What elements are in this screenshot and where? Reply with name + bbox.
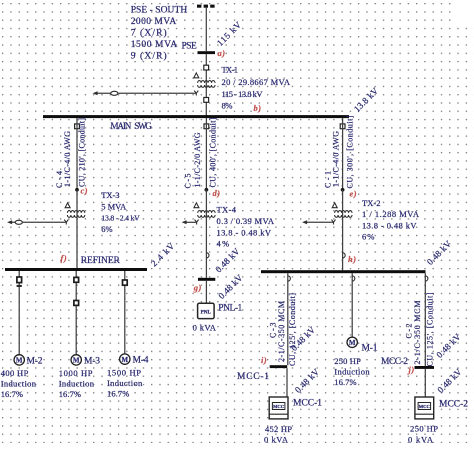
fuse dash M-2	[17, 285, 22, 287]
NGR resistor oval of TX-3	[15, 220, 22, 224]
NGR arrow of TX-2	[302, 220, 307, 224]
wire motor M-4	[124, 271, 126, 354]
svg-text:2-1/C-350 MCM: 2-1/C-350 MCM	[413, 301, 422, 365]
svg-text:16.7%: 16.7%	[334, 377, 356, 387]
MCC-1 box	[269, 397, 288, 419]
fuse arc C-2	[425, 276, 428, 281]
svg-text:MCC-2: MCC-2	[439, 400, 468, 410]
svg-text:MCC-1: MCC-1	[293, 399, 322, 409]
svg-text:Induction: Induction	[1, 378, 37, 388]
svg-text:M: M	[349, 339, 356, 347]
svg-text:TX-2: TX-2	[362, 198, 381, 208]
svg-text:250 HP: 250 HP	[410, 423, 438, 433]
breaker square feeder C-1	[340, 124, 345, 129]
svg-text:7 (X/R): 7 (X/R)	[131, 28, 167, 39]
NGR arrow of TX-3	[7, 220, 12, 224]
cable C-1 labels	[324, 115, 355, 188]
text M-4 ratings	[107, 367, 143, 398]
svg-text:0 kVA: 0 kVA	[264, 435, 289, 445]
svg-text:0.3 / 0.39 MVA: 0.3 / 0.39 MVA	[217, 216, 275, 226]
bus g) PNL feeder bar	[198, 278, 215, 281]
svg-text:M-4: M-4	[133, 356, 149, 366]
text TX-1 ratings	[222, 64, 291, 110]
svg-text:6%: 6%	[101, 224, 112, 234]
wire TX-3 to REFINER	[76, 190, 78, 268]
svg-text:CU, 125', [Conduit]: CU, 125', [Conduit]	[426, 292, 435, 366]
wire cable C-5	[205, 118, 207, 190]
svg-text:13.8 - 0.48 kV: 13.8 - 0.48 kV	[362, 220, 417, 230]
svg-text:1500 MVA: 1500 MVA	[131, 40, 178, 50]
svg-text:TX-4: TX-4	[217, 205, 237, 215]
svg-text:452 HP: 452 HP	[265, 424, 292, 434]
wire TX-2 down to bus h	[342, 190, 344, 270]
text utility ratings	[131, 6, 188, 62]
NGR resistor oval of TX-1	[111, 91, 118, 95]
wire i bar to MCC-1	[286, 368, 288, 397]
NGR wire of TX-2	[305, 221, 334, 223]
svg-text:c): c)	[81, 185, 89, 195]
svg-text:d): d)	[213, 188, 221, 198]
wire cable C-4	[76, 118, 78, 190]
text MCC-1 load	[264, 424, 292, 445]
motor M-4 circle	[120, 354, 130, 364]
NGR wire of TX-4	[184, 221, 196, 223]
svg-text:0 kVA: 0 kVA	[408, 434, 434, 444]
svg-text:M-3: M-3	[84, 356, 100, 366]
svg-text:f): f)	[61, 253, 68, 263]
svg-text:PSE - SOUTH: PSE - SOUTH	[131, 6, 188, 16]
transformer TX-2	[332, 203, 353, 225]
svg-text:13.8 - 0.48 kV: 13.8 - 0.48 kV	[217, 227, 272, 237]
svg-text:9 (X/R): 9 (X/R)	[131, 51, 167, 62]
svg-text:Induction: Induction	[59, 378, 95, 388]
svg-text:h): h)	[348, 254, 357, 264]
svg-text:REFINER: REFINER	[81, 256, 121, 266]
svg-text:M-1: M-1	[362, 343, 378, 353]
svg-text:Induction: Induction	[107, 378, 143, 388]
svg-text:MCC-1: MCC-1	[237, 372, 269, 382]
svg-text:4%: 4%	[217, 239, 230, 249]
wire motor M-2	[18, 271, 20, 355]
breaker square M-4	[123, 280, 128, 285]
svg-text:1500 HP: 1500 HP	[107, 367, 141, 377]
cable C-5 labels	[184, 117, 218, 188]
svg-text:j): j)	[407, 365, 415, 375]
svg-text:MCC: MCC	[419, 404, 430, 409]
node e) dot	[341, 188, 345, 192]
NGR arrow of TX-4	[182, 220, 187, 224]
svg-text:1-1/C-4/0 AWG: 1-1/C-4/0 AWG	[332, 131, 341, 187]
svg-text:MAIN: MAIN	[110, 121, 131, 131]
fuse arc M-1	[352, 276, 355, 281]
svg-text:M: M	[73, 357, 80, 365]
svg-text:250 HP: 250 HP	[334, 356, 361, 366]
wire cable C-2	[424, 273, 426, 366]
svg-text:0 kVA: 0 kVA	[193, 323, 217, 333]
svg-text:CU, 210', [Conduit]: CU, 210', [Conduit]	[78, 118, 87, 187]
svg-text:a): a)	[218, 48, 226, 58]
svg-text:13.8 - 2.4 kV: 13.8 - 2.4 kV	[101, 214, 140, 223]
bus h 0.48kV	[261, 270, 426, 273]
svg-text:SWG: SWG	[134, 121, 152, 131]
svg-text:400 HP: 400 HP	[1, 368, 29, 378]
node c) dot	[75, 188, 79, 192]
bus PSE	[198, 51, 216, 54]
wire motor M-3	[75, 271, 77, 355]
svg-text:20 / 29.8667 MVA: 20 / 29.8667 MVA	[222, 77, 291, 87]
svg-text:6%: 6%	[362, 232, 375, 242]
utility PSE-SOUTH symbol	[197, 5, 215, 8]
wire cable C-3	[287, 273, 289, 365]
wire PSE bus to TX-1	[205, 54, 207, 115]
svg-text:e): e)	[350, 189, 358, 199]
bus MAIN SWG	[43, 115, 349, 118]
breaker square M-3	[74, 301, 79, 306]
svg-text:PSE: PSE	[182, 41, 197, 51]
cable C-3 labels	[269, 293, 298, 366]
contactor square M-3	[74, 277, 79, 282]
text M-3 ratings	[59, 368, 95, 399]
svg-text:TX-3: TX-3	[101, 190, 119, 200]
breaker square above TX-1	[204, 65, 209, 70]
svg-text:M-2: M-2	[27, 356, 43, 366]
text M-1 ratings	[334, 356, 370, 387]
svg-text:5 MVA: 5 MVA	[101, 201, 127, 211]
text TX-2 ratings	[362, 198, 420, 242]
motor M-2 circle	[14, 355, 24, 365]
contactor square M-2	[17, 277, 22, 283]
bus j MCC-2 bar	[415, 366, 435, 369]
svg-text:M: M	[16, 357, 23, 365]
svg-text:CU, 300', [Conduit]: CU, 300', [Conduit]	[346, 115, 355, 188]
wire cable C-1	[342, 118, 344, 190]
svg-text:Induction: Induction	[334, 367, 370, 377]
transformer TX-3	[64, 203, 85, 225]
wire motor M-1	[351, 273, 353, 337]
breaker square feeder C-5	[204, 124, 209, 129]
svg-text:16.7%: 16.7%	[107, 389, 129, 399]
svg-text:CU, 125', [Conduit]: CU, 125', [Conduit]	[288, 293, 297, 366]
svg-text:C-5: C-5	[184, 174, 193, 189]
svg-text:2000 MVA: 2000 MVA	[131, 17, 177, 27]
wire j bar to MCC-2	[424, 369, 426, 397]
wire g bar to PNL-1	[205, 281, 207, 304]
NGR arrow of TX-1	[93, 91, 98, 95]
fuse arc C-3	[288, 276, 291, 281]
transformer TX-4	[194, 203, 215, 225]
svg-text:115 - 13.8 kV: 115 - 13.8 kV	[222, 89, 264, 99]
svg-text:MCC: MCC	[273, 404, 284, 409]
svg-text:M: M	[121, 356, 128, 364]
svg-text:CU, 400', [Conduit]: CU, 400', [Conduit]	[209, 117, 218, 187]
bus REFINER	[5, 268, 147, 271]
text M-2 ratings	[1, 368, 37, 399]
cable C-4 labels	[55, 118, 87, 188]
MCC-2 box	[415, 397, 434, 419]
svg-text:8%: 8%	[222, 100, 233, 110]
motor M-1 circle	[347, 337, 357, 347]
svg-text:16.7%: 16.7%	[1, 389, 23, 399]
svg-text:MCC-2: MCC-2	[381, 357, 408, 367]
svg-text:16.7%: 16.7%	[59, 389, 81, 399]
breaker square below TX-1	[204, 98, 209, 103]
cable C-2 labels	[405, 292, 435, 366]
wire TX-4 down	[205, 190, 207, 278]
wire utility to PSE bus	[205, 8, 207, 52]
svg-text:1-1/C-2/0 AWG: 1-1/C-2/0 AWG	[193, 132, 202, 187]
svg-text:i): i)	[261, 355, 267, 365]
svg-text:PNL: PNL	[201, 309, 212, 315]
svg-text:1 / 1.288 MVA: 1 / 1.288 MVA	[362, 209, 420, 219]
fuse arc TX-4 chain	[206, 253, 209, 258]
svg-text:PNL-1: PNL-1	[218, 303, 242, 313]
svg-text:g): g)	[193, 282, 202, 292]
text TX-3 ratings	[101, 190, 140, 234]
svg-text:1-1/C-4/0 AWG: 1-1/C-4/0 AWG	[63, 131, 72, 187]
NGR wire of TX-1	[95, 92, 196, 94]
transformer TX-1	[194, 73, 215, 96]
fuse arc TX-2 chain	[343, 253, 346, 258]
breaker square feeder C-4	[75, 124, 80, 129]
text TX-4 ratings	[217, 205, 275, 249]
svg-text:1000 HP: 1000 HP	[59, 368, 93, 378]
svg-text:2-1/C-350 MCM: 2-1/C-350 MCM	[277, 301, 286, 362]
node d) dot	[205, 188, 209, 192]
text MCC-2 load	[408, 423, 438, 444]
NGR wire of TX-3	[10, 221, 67, 223]
bus i MCC-1 bar	[270, 365, 288, 368]
panel PNL-1 box	[198, 303, 215, 318]
motor M-3 circle	[71, 355, 81, 365]
svg-text:b): b)	[254, 103, 262, 113]
svg-text:TX-1: TX-1	[222, 64, 239, 74]
